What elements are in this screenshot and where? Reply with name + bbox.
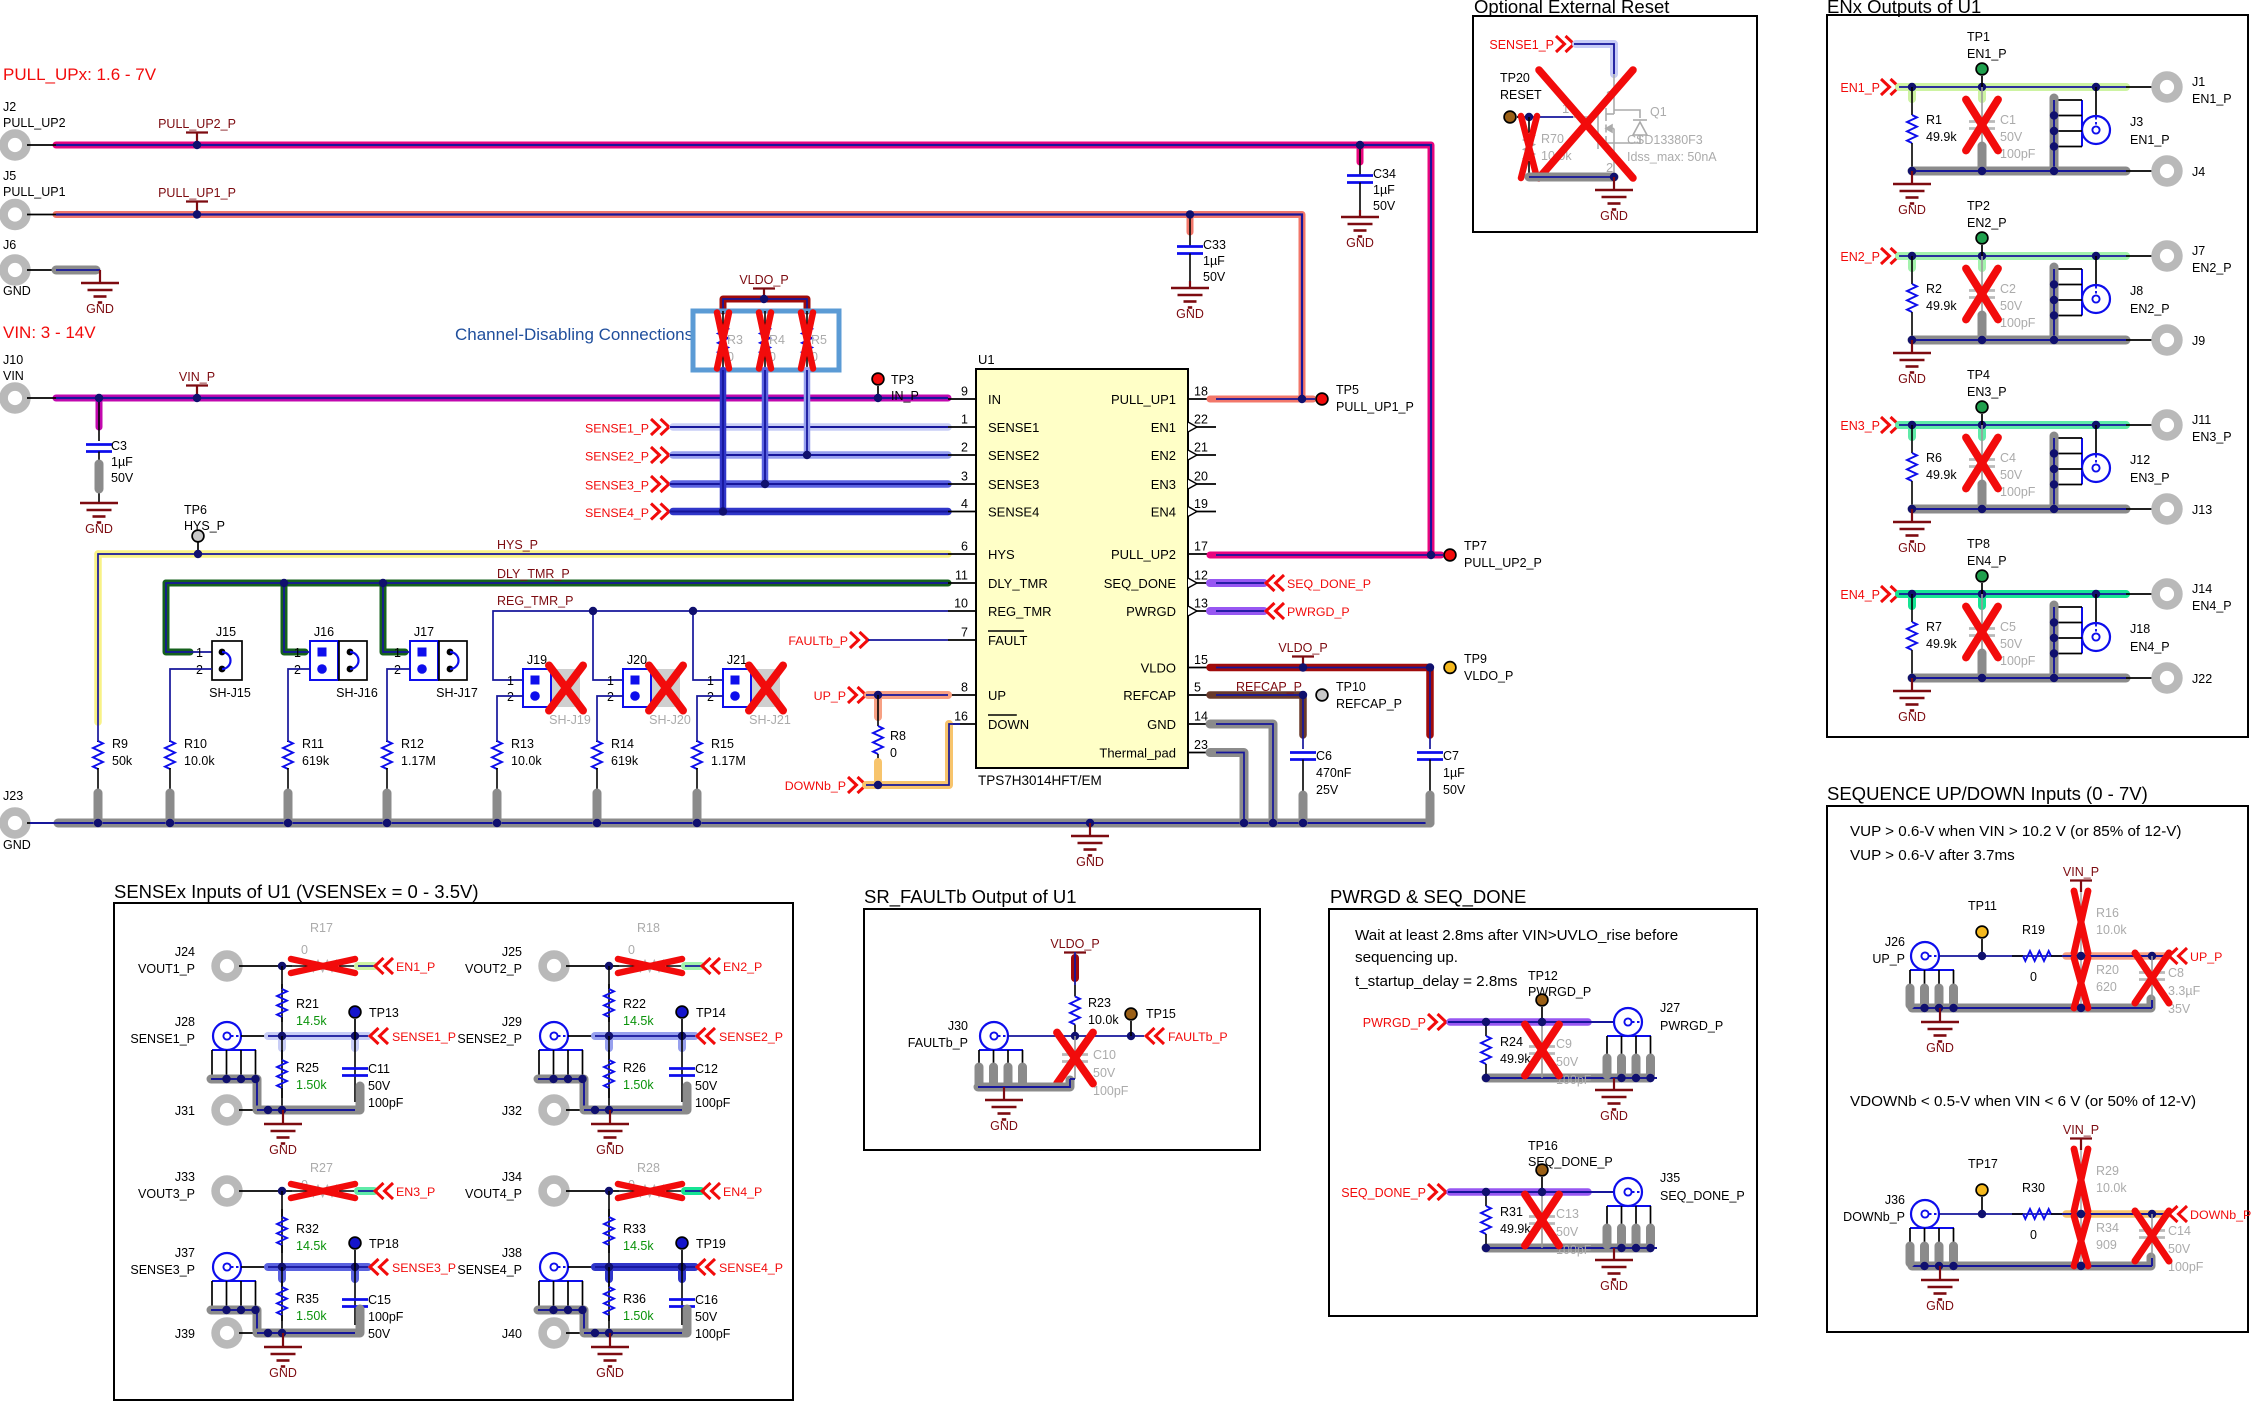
highlight box channel-disabling [693, 311, 839, 370]
wire DOWNb_P to pin 16 [866, 724, 949, 785]
svg-text:GND: GND [1898, 203, 1926, 217]
capacitor C9 (crossed out) [1541, 1022, 1543, 1078]
resistor R26 1.50k [608, 1036, 610, 1110]
svg-text:Optional External Reset: Optional External Reset [1474, 0, 1669, 17]
svg-text:CSD13380F3: CSD13380F3 [1627, 133, 1703, 147]
wire R3 to SENSE4 [720, 370, 727, 511]
svg-text:VIN: VIN [3, 369, 24, 383]
svg-text:GND: GND [596, 1366, 624, 1380]
svg-text:J2: J2 [3, 100, 16, 114]
svg-text:J13: J13 [2192, 503, 2212, 517]
svg-text:IN: IN [988, 392, 1001, 407]
svg-text:Thermal_pad: Thermal_pad [1099, 746, 1176, 761]
svg-text:DLY_TMR_P: DLY_TMR_P [497, 567, 570, 581]
svg-text:VIN_P: VIN_P [179, 370, 215, 384]
svg-text:2: 2 [507, 690, 514, 704]
test point TP18 SENSE3_P [349, 1237, 361, 1249]
svg-text:R32: R32 [296, 1222, 319, 1236]
svg-text:R16: R16 [2096, 906, 2119, 920]
svg-text:14.5k: 14.5k [296, 1239, 327, 1253]
wire EN3_P row [1899, 421, 2126, 429]
resistor R70 10.0k (crossed out) [1528, 117, 1530, 133]
svg-text:50V: 50V [695, 1310, 718, 1324]
resistor R21 14.5k [281, 966, 283, 1036]
svg-text:VLDO_P: VLDO_P [1050, 937, 1099, 951]
svg-text:R31: R31 [1500, 1205, 1523, 1219]
junction J8 tap [2092, 252, 2100, 260]
pin 22 EN1 [1188, 426, 1216, 428]
junction R6 tap [1908, 421, 1916, 429]
svg-text:R30: R30 [2022, 1181, 2045, 1195]
wire PWRGD_P row [1450, 1018, 1588, 1026]
svg-text:TP1: TP1 [1967, 30, 1990, 44]
wire pin 14 GND to bus [1210, 724, 1273, 823]
svg-text:100pF: 100pF [695, 1096, 731, 1110]
svg-text:GND: GND [1346, 236, 1374, 250]
svg-text:100pF: 100pF [2168, 1260, 2204, 1274]
svg-text:50V: 50V [368, 1079, 391, 1093]
svg-text:10.0k: 10.0k [2096, 923, 2127, 937]
svg-text:IN_P: IN_P [891, 389, 919, 403]
wire to EN2_P flag [685, 962, 701, 970]
wire J16 pin2 to R11 [288, 669, 310, 742]
resistor R36 1.50k [608, 1267, 610, 1333]
svg-text:1: 1 [961, 413, 968, 427]
output flag SENSE3_P [370, 1259, 379, 1275]
svg-text:1: 1 [707, 674, 714, 688]
svg-text:14.5k: 14.5k [623, 1014, 654, 1028]
pin 12 SEQ_DONE [1188, 582, 1216, 584]
svg-text:1: 1 [196, 646, 203, 660]
wire SENSE1_P row [241, 1035, 268, 1037]
svg-text:TP10: TP10 [1336, 680, 1366, 694]
resistor R4 0 (crossed out) [764, 311, 766, 327]
svg-text:100pF: 100pF [1093, 1084, 1129, 1098]
svg-text:1µF: 1µF [1373, 183, 1395, 197]
svg-text:50V: 50V [1443, 783, 1466, 797]
svg-text:SH-J21: SH-J21 [749, 713, 791, 727]
capacitor C11 [354, 1036, 356, 1102]
pin 5 REFCAP [1188, 694, 1216, 696]
svg-text:SENSE1_P: SENSE1_P [130, 1032, 195, 1046]
svg-text:FAULTb_P: FAULTb_P [1168, 1030, 1228, 1044]
svg-text:0: 0 [2030, 970, 2037, 984]
svg-text:FAULTb_P: FAULTb_P [908, 1036, 968, 1050]
svg-text:SEQ_DONE_P: SEQ_DONE_P [1341, 1186, 1426, 1200]
svg-text:J27: J27 [1660, 1001, 1680, 1015]
ground symbol J40 [609, 1333, 611, 1347]
junction R35 tap [278, 1263, 286, 1271]
wire C3 branch [96, 398, 103, 427]
wire J6 to ground [56, 266, 96, 275]
resistor R14 619k [596, 741, 598, 742]
svg-text:EN1_P: EN1_P [396, 960, 435, 974]
junction R25 tap [278, 1032, 286, 1040]
wire gnd bus J36 row teeth [1910, 1227, 1954, 1229]
junction R21 tap [278, 962, 286, 970]
svg-text:VIN_P: VIN_P [2063, 1123, 2099, 1137]
junction R31 tap [1482, 1188, 1490, 1196]
svg-text:EN3_P: EN3_P [396, 1185, 435, 1199]
connector J14 EN4_P [2156, 583, 2179, 606]
wire DOWNb_P row [1939, 1213, 2167, 1215]
wire HYS net [98, 550, 948, 558]
svg-text:PULL_UP2_P: PULL_UP2_P [158, 117, 236, 131]
svg-text:J28: J28 [175, 1015, 195, 1029]
svg-text:18: 18 [1194, 385, 1208, 399]
svg-text:J26: J26 [1885, 935, 1905, 949]
svg-text:t_startup_delay = 2.8ms: t_startup_delay = 2.8ms [1355, 973, 1518, 990]
resistor R34 909 (crossed out) [2080, 1214, 2082, 1266]
svg-text:VOUT1_P: VOUT1_P [138, 962, 195, 976]
wire pin SEQ_DONE_P [1210, 579, 1264, 587]
svg-text:PULL_UP2: PULL_UP2 [3, 116, 66, 130]
svg-text:J22: J22 [2192, 672, 2212, 686]
svg-text:C12: C12 [695, 1062, 718, 1076]
junction C12 tap [678, 1032, 686, 1040]
svg-text:50V: 50V [368, 1327, 391, 1341]
svg-text:1µF: 1µF [1203, 254, 1225, 268]
svg-text:GND: GND [1600, 1279, 1628, 1293]
wire SEQ_DONE_P row [1450, 1188, 1588, 1196]
svg-text:REFCAP_P: REFCAP_P [1236, 680, 1302, 694]
output flag UP_P [2169, 948, 2178, 964]
svg-text:SENSE3: SENSE3 [988, 477, 1039, 492]
junction R13 GND [493, 819, 501, 827]
svg-text:1: 1 [607, 674, 614, 688]
pin 9 IN [948, 398, 976, 400]
junction R5-SENSE2 [803, 451, 811, 459]
ground symbol J31 [282, 1110, 284, 1124]
capacitor C14 (crossed out) [2151, 1214, 2153, 1258]
junction TP15 tap [1127, 1032, 1135, 1040]
svg-text:SR_FAULTb Output of U1: SR_FAULTb Output of U1 [864, 886, 1077, 908]
junction TP8 tap [1978, 590, 1986, 598]
svg-text:TPS7H3014HFT/EM: TPS7H3014HFT/EM [978, 773, 1102, 788]
svg-text:GND: GND [1600, 209, 1628, 223]
svg-text:TP7: TP7 [1464, 539, 1487, 553]
svg-text:VOUT3_P: VOUT3_P [138, 1187, 195, 1201]
resistor R10 10.0k [169, 741, 171, 742]
svg-text:GND: GND [1076, 855, 1104, 869]
svg-text:J4: J4 [2192, 165, 2205, 179]
junction PULL_UP2_P flag [193, 141, 201, 149]
svg-text:C6: C6 [1316, 749, 1332, 763]
svg-text:J20: J20 [627, 653, 647, 667]
wire TP20 to gate [1529, 116, 1573, 118]
svg-text:10.0k: 10.0k [184, 754, 215, 768]
svg-text:J32: J32 [502, 1104, 522, 1118]
svg-text:1.17M: 1.17M [711, 754, 746, 768]
svg-text:TP20: TP20 [1500, 71, 1530, 85]
svg-text:SENSE2: SENSE2 [988, 448, 1039, 463]
svg-text:TP14: TP14 [696, 1006, 726, 1020]
svg-text:1: 1 [394, 646, 401, 660]
junction J18 tap [2092, 590, 2100, 598]
svg-text:REFCAP: REFCAP [1123, 688, 1176, 703]
svg-text:R1: R1 [1926, 113, 1942, 127]
svg-text:49.9k: 49.9k [1926, 468, 1957, 482]
svg-text:C14: C14 [2168, 1224, 2191, 1238]
ground symbol J35 row [1613, 1248, 1615, 1260]
svg-text:8: 8 [961, 681, 968, 695]
svg-text:SENSEx Inputs of U1 (VSENSEx =: SENSEx Inputs of U1 (VSENSEx = 0 - 3.5V) [114, 881, 479, 902]
wire VIN net to pin 9 [56, 395, 948, 402]
svg-text:SEQ_DONE_P: SEQ_DONE_P [1287, 577, 1371, 591]
svg-text:EN1_P: EN1_P [1967, 47, 2007, 61]
svg-text:J29: J29 [502, 1015, 522, 1029]
svg-text:R5: R5 [811, 333, 827, 347]
junction REG_TMR J20 [589, 607, 597, 615]
svg-text:EN3_P: EN3_P [2192, 430, 2232, 444]
svg-text:9: 9 [961, 385, 968, 399]
svg-text:UP: UP [988, 688, 1006, 703]
svg-text:R4: R4 [769, 333, 785, 347]
wire SENSE2_P row [568, 1035, 595, 1037]
output flag EN4_P [702, 1183, 711, 1199]
svg-text:50V: 50V [1373, 199, 1396, 213]
svg-text:GND: GND [1898, 372, 1926, 386]
wire ENx gnd bus row J1 [1912, 167, 2126, 176]
junction PULL_UP1 TP5 [1298, 395, 1306, 403]
svg-text:4: 4 [961, 497, 968, 511]
svg-text:Idss_max: 50nA: Idss_max: 50nA [1627, 150, 1717, 164]
svg-text:C1: C1 [2000, 113, 2016, 127]
wire R4 to SENSE3 [762, 370, 769, 484]
svg-text:FAULT: FAULT [988, 633, 1028, 648]
junction C16 tap [678, 1263, 686, 1271]
svg-text:R28: R28 [637, 1161, 660, 1175]
ground symbol J26 row [1939, 1008, 1941, 1022]
svg-text:100pF: 100pF [2000, 485, 2036, 499]
svg-text:J15: J15 [216, 625, 236, 639]
svg-text:FAULTb_P: FAULTb_P [788, 634, 848, 648]
svg-text:23: 23 [1194, 738, 1208, 752]
pin 15 VLDO [1188, 667, 1216, 669]
svg-text:C7: C7 [1443, 749, 1459, 763]
svg-text:SENSE3_P: SENSE3_P [392, 1261, 456, 1275]
svg-text:GND: GND [269, 1366, 297, 1380]
svg-text:14.5k: 14.5k [296, 1014, 327, 1028]
svg-text:25V: 25V [1316, 783, 1339, 797]
coax connector J27 PWRGD_P [1614, 1008, 1642, 1036]
ground symbol ENx row J1 [1911, 171, 1913, 184]
wire gnd bus J31 [257, 1086, 360, 1110]
resistor R25 1.50k [281, 1036, 283, 1110]
junction DLY_TMR J16 [280, 579, 288, 587]
svg-text:6: 6 [961, 540, 968, 554]
svg-text:1.50k: 1.50k [623, 1309, 654, 1323]
svg-text:VIN_P: VIN_P [2063, 865, 2099, 879]
svg-text:EN2_P: EN2_P [2130, 302, 2170, 316]
capacitor C3 [86, 443, 112, 446]
svg-text:100pF: 100pF [368, 1096, 404, 1110]
junction R33 tap [605, 1187, 613, 1195]
svg-text:SENSE4_P: SENSE4_P [457, 1263, 522, 1277]
svg-text:EN3: EN3 [1151, 477, 1176, 492]
pin 13 PWRGD [1188, 610, 1216, 612]
ground symbol at C3 [80, 502, 118, 505]
svg-text:R35: R35 [296, 1292, 319, 1306]
svg-text:TP6: TP6 [184, 503, 207, 517]
svg-text:619k: 619k [611, 754, 639, 768]
svg-text:50V: 50V [2000, 468, 2023, 482]
junction VIN_P flag [193, 394, 201, 402]
svg-text:HYS_P: HYS_P [184, 519, 225, 533]
test point TP15 FAULTb_P [1125, 1008, 1137, 1020]
svg-text:50V: 50V [1093, 1066, 1116, 1080]
svg-text:J30: J30 [948, 1019, 968, 1033]
junction TP4 tap [1978, 421, 1986, 429]
output flag PWRGD_P [1266, 603, 1275, 619]
wire R11 to GND bus [284, 793, 293, 823]
wire R9 to GND bus [94, 793, 103, 823]
svg-text:J17: J17 [414, 625, 434, 639]
svg-text:10.0k: 10.0k [2096, 1181, 2127, 1195]
wire R5 to SENSE2 [804, 370, 811, 455]
svg-text:SH-J17: SH-J17 [436, 686, 478, 700]
svg-text:R12: R12 [401, 737, 424, 751]
coax connector J35 SEQ_DONE_P [1614, 1178, 1642, 1206]
svg-text:C3: C3 [111, 439, 127, 453]
wire UP_P to pin 8 [868, 691, 948, 699]
wire VOUT2_P row [566, 965, 619, 967]
svg-text:14: 14 [1194, 710, 1208, 724]
junction R24 tap [1482, 1018, 1490, 1026]
svg-text:R70: R70 [1541, 132, 1564, 146]
svg-text:100pF: 100pF [368, 1310, 404, 1324]
wire gnd bus J26 row teeth [1910, 969, 1954, 971]
junction C8 tap [2148, 952, 2156, 960]
junction C6 GND bus [1299, 819, 1307, 827]
svg-text:SENSE4_P: SENSE4_P [719, 1261, 783, 1275]
wire R13 to GND bus [493, 793, 502, 823]
test point TP7 PULL_UP2_P [1444, 549, 1456, 561]
wire gnd bus J39 [257, 1309, 360, 1333]
wire gnd bus J27 row [1486, 1074, 1650, 1083]
junction UP_P R8 [874, 691, 882, 699]
wire EN2_P row [1899, 252, 2126, 260]
output flag EN2_P [702, 958, 711, 974]
pin 18 PULL_UP1 [1188, 398, 1216, 400]
capacitor C2 (crossed out) [1981, 256, 1983, 340]
svg-text:J10: J10 [3, 353, 23, 367]
pin 16 DOWN [948, 723, 976, 725]
svg-text:1.17M: 1.17M [401, 754, 436, 768]
resistor R2 49.9k [1911, 256, 1913, 284]
svg-text:R23: R23 [1088, 996, 1111, 1010]
resistor R5 0 (crossed out) [806, 311, 808, 327]
wire VOUT3_P row [239, 1190, 292, 1192]
junction VLDO TP9 [1426, 663, 1434, 671]
wire pin PWRGD_P [1210, 607, 1264, 615]
wire to EN1_P flag [358, 962, 374, 970]
svg-text:2: 2 [961, 441, 968, 455]
svg-text:R21: R21 [296, 997, 319, 1011]
svg-text:C15: C15 [368, 1293, 391, 1307]
red X over R70 [1521, 116, 1537, 178]
resistor R24 49.9k [1485, 1022, 1487, 1036]
svg-text:0: 0 [2030, 1228, 2037, 1242]
svg-text:J36: J36 [1885, 1193, 1905, 1207]
svg-text:PWRGD & SEQ_DONE: PWRGD & SEQ_DONE [1330, 886, 1526, 908]
junction VIN_P DOWNb_P [2077, 1210, 2085, 1218]
svg-text:GND: GND [1176, 307, 1204, 321]
svg-text:EN1_P: EN1_P [2192, 92, 2232, 106]
connector J1 EN1_P [2156, 76, 2179, 99]
wire SENSE3_P row [241, 1266, 268, 1268]
svg-text:15: 15 [1194, 653, 1208, 667]
svg-text:5: 5 [1194, 681, 1201, 695]
output flag EN3_P [375, 1183, 384, 1199]
pin 6 HYS [948, 553, 976, 555]
junction VLDO flag [1299, 663, 1307, 671]
svg-text:EN3_P: EN3_P [1967, 385, 2007, 399]
svg-text:2: 2 [196, 663, 203, 677]
resistor R11 619k [287, 741, 289, 742]
svg-text:J19: J19 [527, 653, 547, 667]
ground symbol J32 [609, 1110, 611, 1124]
pin 3 SENSE3 [948, 483, 976, 485]
svg-text:J7: J7 [2192, 244, 2205, 258]
svg-text:VLDO_P: VLDO_P [1278, 641, 1327, 655]
wire to EN3_P flag [358, 1187, 374, 1195]
svg-text:J35: J35 [1660, 1171, 1680, 1185]
svg-text:VOUT4_P: VOUT4_P [465, 1187, 522, 1201]
svg-text:R33: R33 [623, 1222, 646, 1236]
junction C15 tap [351, 1263, 359, 1271]
svg-text:10: 10 [954, 597, 968, 611]
svg-text:GND: GND [1147, 717, 1176, 732]
wire gnd bus FAULTb box [978, 1080, 1070, 1087]
wire R15 to GND bus [693, 793, 702, 823]
ground symbol in reset box [1613, 177, 1615, 190]
svg-text:R10: R10 [184, 737, 207, 751]
capacitor C5 (crossed out) [1981, 594, 1983, 678]
svg-text:R36: R36 [623, 1292, 646, 1306]
resistor R6 49.9k [1911, 425, 1913, 453]
svg-text:C34: C34 [1373, 167, 1396, 181]
svg-text:R6: R6 [1926, 451, 1942, 465]
wire EN1_P row [1899, 83, 2126, 91]
svg-text:3.3µF: 3.3µF [2168, 984, 2201, 998]
junction R10 GND [166, 819, 174, 827]
wire FAULTb row [1008, 1035, 1144, 1037]
pin 17 PULL_UP2 [1188, 553, 1216, 555]
svg-text:EN3_P: EN3_P [1840, 419, 1880, 433]
capacitor C15 [354, 1267, 356, 1325]
wire ENx gnd bus row J11 [1912, 505, 2126, 514]
svg-text:EN1: EN1 [1151, 420, 1176, 435]
svg-text:49.9k: 49.9k [1500, 1052, 1531, 1066]
junction J12 tap [2092, 421, 2100, 429]
svg-text:J24: J24 [175, 945, 195, 959]
svg-text:100pF: 100pF [2000, 654, 2036, 668]
svg-text:EN1_P: EN1_P [1840, 81, 1880, 95]
junction TP17 tap [1978, 1210, 1986, 1218]
junction C11 tap [351, 1032, 359, 1040]
svg-text:J39: J39 [175, 1327, 195, 1341]
wire SENSE4_P to U1 [673, 508, 948, 516]
svg-text:J11: J11 [2192, 413, 2211, 427]
svg-text:REG_TMR: REG_TMR [988, 604, 1052, 619]
test point TP5 PULL_UP1_P [1316, 393, 1328, 405]
svg-text:2: 2 [294, 663, 301, 677]
svg-text:R3: R3 [727, 333, 743, 347]
svg-text:16: 16 [954, 710, 968, 724]
wire FAULTb_P to pin 7 [868, 639, 948, 641]
wire PULL_UP1 net [56, 215, 1313, 400]
